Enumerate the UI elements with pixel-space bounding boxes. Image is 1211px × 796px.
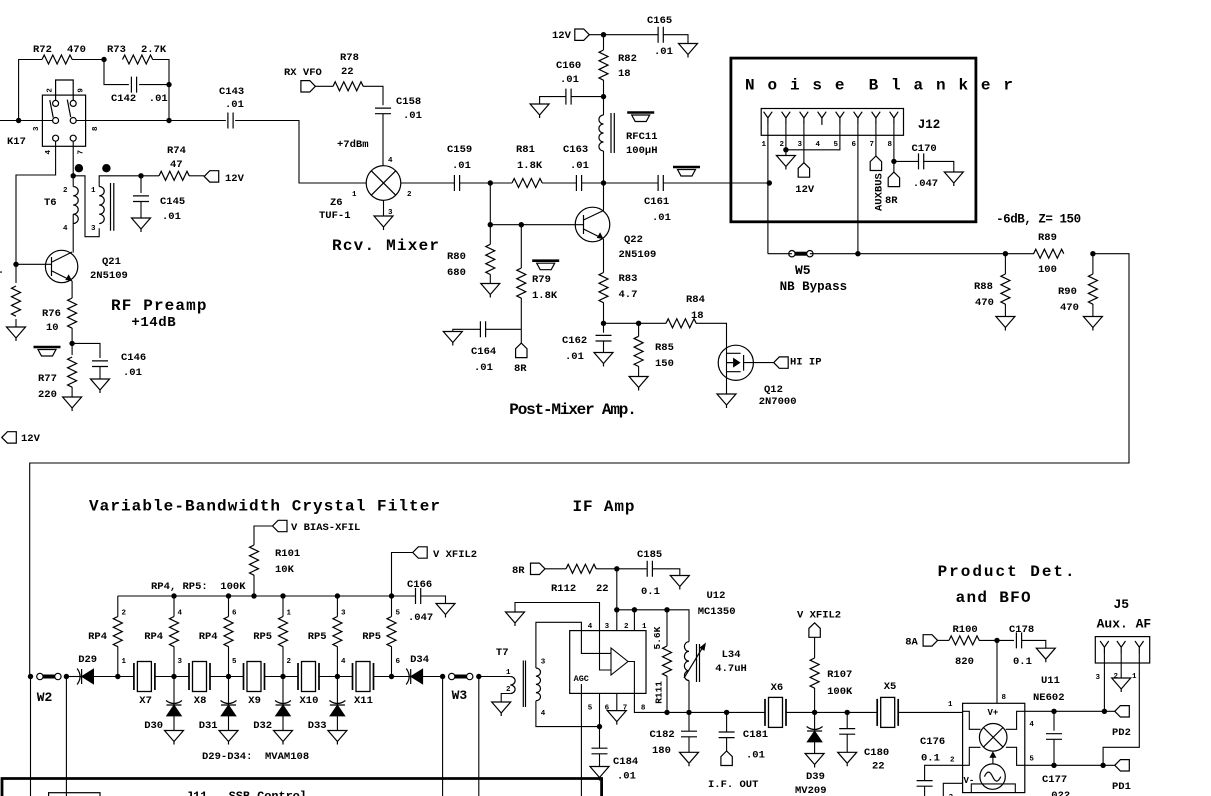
wire: T6 pin4 down to Q21 collector	[52, 214, 73, 262]
svg-text:1: 1	[287, 610, 292, 618]
wire: C142 right lead	[139, 84, 169, 86]
wire: drop from C159 junction to base line	[489, 183, 491, 225]
node: junction D33	[335, 674, 340, 679]
wire: C164 left lead to ground	[453, 329, 481, 331]
svg-text:C181: C181	[743, 729, 768, 741]
wire: C161 into noise blanker to J12 pin1	[663, 182, 769, 184]
wire: C170 to ground	[924, 161, 954, 172]
capacitor C178	[1016, 632, 1021, 648]
svg-text:3: 3	[91, 225, 96, 233]
wire: junction down to U11 pin8	[996, 640, 998, 703]
flag PD1	[1115, 760, 1130, 771]
svg-text:7: 7	[870, 141, 875, 149]
ground (Z6)	[374, 216, 393, 230]
ground (J5 pin2)	[1112, 678, 1131, 692]
wire: U11 pin5 output (PD1 line)	[1025, 764, 1115, 766]
J5 pin 3	[1100, 641, 1109, 654]
svg-text:2: 2	[780, 141, 785, 149]
wire: R101 to bus	[253, 575, 255, 596]
svg-text:2: 2	[624, 623, 629, 631]
wire: U11 pin4 output (PD2 line)	[1025, 710, 1115, 712]
crystal X10	[298, 662, 319, 692]
capacitor C145	[140, 176, 142, 193]
svg-text:I.F. OUT: I.F. OUT	[708, 779, 758, 791]
svg-text:4: 4	[588, 623, 593, 631]
capacitor C142	[131, 77, 136, 93]
crystal X9	[244, 662, 265, 692]
svg-text:C185: C185	[637, 549, 662, 561]
varactor diode D39	[814, 712, 816, 731]
svg-text:T: T	[0, 270, 2, 282]
node: junction R100/C178/pin8	[994, 638, 999, 643]
svg-text:5.6K: 5.6K	[652, 626, 663, 649]
node: junction W2 left	[28, 674, 33, 679]
svg-text:R73: R73	[107, 44, 126, 56]
svg-text:.01: .01	[654, 46, 673, 58]
svg-text:.047: .047	[408, 612, 433, 624]
jumper W2	[37, 673, 61, 679]
svg-text:8: 8	[888, 141, 893, 149]
wire: R112 to junction	[596, 568, 617, 570]
svg-text:.01: .01	[452, 160, 471, 172]
shield icon (above R79)	[532, 261, 559, 270]
crystal X5	[877, 697, 898, 727]
svg-text:8: 8	[92, 126, 100, 131]
resistor R76	[68, 298, 77, 328]
wire: X6 to R107 junction	[786, 711, 877, 713]
node: junction T6 pin2 top	[71, 173, 76, 178]
node: junction RFC11/Q22 collector/C161	[601, 180, 606, 185]
svg-text:Rcv. Mixer: Rcv. Mixer	[332, 237, 439, 255]
wire: C166 to ground	[421, 596, 446, 604]
ground (C180)	[838, 752, 857, 766]
capacitor C164	[480, 321, 485, 337]
svg-text:C184: C184	[613, 756, 638, 768]
wire: junction to C160	[571, 96, 603, 98]
capacitor C163	[576, 175, 581, 191]
svg-text:C165: C165	[647, 15, 672, 27]
node: junction C142/R73 vertical	[166, 82, 171, 87]
shield icon (near R77)	[34, 347, 61, 356]
resistor R82	[603, 35, 605, 50]
svg-text:C160: C160	[556, 60, 581, 72]
svg-text:3: 3	[541, 659, 546, 667]
capacitor C161	[658, 175, 663, 191]
J12 pin 7	[872, 112, 881, 125]
connector J11 (partial)	[49, 793, 100, 796]
wire: R82 to junction	[603, 80, 605, 97]
capacitor C166	[392, 595, 416, 597]
svg-text:D34: D34	[410, 654, 429, 666]
U11 osc-to-mixer arrow	[992, 755, 994, 764]
wire: J12 pin1 down through box to W5 line	[767, 125, 769, 254]
svg-text:100: 100	[1038, 264, 1057, 276]
svg-text:V+: V+	[988, 708, 999, 718]
inductor L34 (variable)	[684, 642, 702, 682]
wire: C160 to ground	[540, 97, 566, 104]
resistor R100	[949, 636, 979, 645]
svg-text:C159: C159	[447, 144, 472, 156]
wire: junction to R74	[141, 175, 159, 177]
U11 internal routing pin2	[963, 747, 981, 765]
wire: W2 verticals into SSB control box	[31, 677, 67, 796]
resistor R80	[489, 225, 491, 245]
J12 pin 3	[800, 112, 809, 125]
svg-text:.01: .01	[560, 74, 579, 86]
wire: junction to R85 junction	[604, 322, 639, 324]
svg-text:8R: 8R	[885, 195, 898, 207]
svg-text:V-: V-	[964, 776, 975, 786]
power flag 12V (bottom-left, floating)	[2, 432, 16, 443]
svg-text:RP4: RP4	[199, 631, 218, 643]
node: junction R111 top	[664, 607, 669, 612]
resistor RP4-c	[228, 596, 230, 617]
svg-text:D29-D34: MVAM108: D29-D34: MVAM108	[202, 751, 309, 763]
ground (C145)	[132, 218, 151, 232]
wire: relay pin4 path down-left	[16, 141, 56, 264]
ground (C160)	[530, 104, 549, 118]
svg-text:R88: R88	[974, 281, 993, 293]
svg-text:R78: R78	[340, 52, 359, 64]
wire: base line to Q22	[490, 224, 583, 226]
transformer T6	[73, 183, 114, 231]
svg-text:100µH: 100µH	[626, 145, 658, 157]
varactor diode D33	[336, 677, 338, 706]
svg-text:V XFIL2: V XFIL2	[433, 549, 477, 561]
svg-text:Z6: Z6	[330, 197, 343, 209]
svg-text:X7: X7	[139, 695, 152, 707]
svg-text:R81: R81	[516, 144, 535, 156]
wire: R73 right lead and vertical to bus	[153, 60, 170, 121]
svg-text:6: 6	[605, 705, 610, 713]
svg-text:100K: 100K	[827, 686, 853, 698]
svg-text:RP4, RP5: 100K: RP4, RP5: 100K	[151, 581, 246, 593]
ground (C170)	[944, 172, 963, 186]
J12 pin 4 (stub only)	[818, 112, 827, 125]
flag V BIAS-XFIL	[273, 520, 288, 531]
node: junction W2 right	[64, 674, 69, 679]
wire: D34 to W3	[423, 676, 443, 678]
svg-text:V BIAS-XFIL: V BIAS-XFIL	[291, 522, 360, 534]
wire: R88 to ground	[1004, 304, 1006, 317]
flag HI IP	[774, 357, 789, 368]
wire: W3 verticals into SSB control box	[443, 677, 479, 796]
transistor Q21 2N5109	[45, 250, 77, 282]
wire: flag to R101	[254, 526, 273, 545]
node: junction pin6/T7 return	[597, 724, 602, 729]
svg-text:L34: L34	[722, 649, 741, 661]
ground (R77)	[63, 397, 82, 411]
svg-text:and BFO: and BFO	[956, 589, 1031, 607]
svg-text:1.8K: 1.8K	[532, 290, 558, 302]
svg-text:.01: .01	[570, 160, 589, 172]
svg-text:4: 4	[178, 610, 183, 618]
varactor diode D31	[228, 677, 230, 706]
resistor R79	[520, 225, 522, 268]
wire: AGC line (U12 pin5) to page bottom	[580, 684, 582, 796]
capacitor C146	[92, 361, 108, 367]
svg-text:4: 4	[341, 658, 346, 666]
svg-text:2: 2	[506, 686, 511, 694]
svg-text:W3: W3	[452, 688, 468, 703]
svg-text:470: 470	[1060, 302, 1079, 314]
svg-text:.01: .01	[403, 110, 422, 122]
ground (R88)	[996, 317, 1015, 331]
svg-text:J12: J12	[918, 118, 941, 132]
resistor R111	[666, 610, 668, 646]
svg-text:150: 150	[655, 358, 674, 370]
ground (C166)	[436, 604, 455, 618]
node: junction vertical at bus	[166, 118, 171, 123]
node: junction R101 at bus	[251, 593, 256, 598]
svg-text:820: 820	[955, 656, 974, 668]
svg-text:12V: 12V	[21, 433, 41, 445]
wire: T6 pin2 junction over to secondary pin3	[73, 176, 99, 237]
svg-text:47: 47	[170, 159, 183, 171]
svg-text:C143: C143	[219, 86, 244, 98]
svg-text:D31: D31	[199, 720, 218, 732]
node: junction R107/D39	[812, 710, 817, 715]
node: junction C177 top	[1051, 709, 1056, 714]
wire: J12 pin8 down to junction	[893, 125, 895, 161]
wire: J5 pin1 down and to PD1 line	[1103, 654, 1139, 765]
svg-text:C178: C178	[1009, 624, 1034, 636]
capacitor C159	[454, 175, 459, 191]
svg-text:R100: R100	[953, 624, 978, 636]
svg-text:R90: R90	[1058, 286, 1077, 298]
svg-text:NE602: NE602	[1033, 692, 1065, 704]
wire: R77 to ground	[71, 387, 73, 397]
wire: X7 to X8	[155, 676, 189, 678]
svg-text:.01: .01	[746, 750, 765, 762]
node: junction W3 right	[476, 674, 481, 679]
svg-text:1: 1	[352, 191, 357, 199]
svg-text:.01: .01	[225, 99, 244, 111]
J5 pin 2	[1117, 641, 1126, 654]
wire: R85 to ground	[638, 366, 640, 376]
wire: flag to R78	[315, 85, 333, 87]
flag I.F. OUT	[721, 751, 732, 766]
resistor R77	[68, 357, 77, 387]
ground (J12 pin2)	[776, 156, 795, 170]
svg-text:7: 7	[77, 150, 85, 155]
wire: pin8 junction to C170	[894, 160, 919, 162]
crystal X6	[765, 697, 786, 727]
node: junction at R79	[519, 222, 524, 227]
node: junction pin2 line	[614, 607, 619, 612]
svg-text:RFC11: RFC11	[626, 131, 658, 143]
wire: RFC11 down to output line junction	[603, 151, 605, 183]
ground (R80)	[481, 284, 500, 298]
svg-text:R111: R111	[654, 681, 665, 704]
svg-text:R85: R85	[655, 342, 674, 354]
wire: junction to C161	[604, 182, 659, 184]
wire: R90 to ground	[1092, 304, 1094, 317]
svg-text:RP4: RP4	[88, 631, 107, 643]
capacitor C162	[603, 323, 605, 332]
wire: ground line to U12 pin3	[515, 603, 600, 631]
wire: R78 to C158	[363, 86, 383, 105]
svg-text:6: 6	[852, 141, 857, 149]
resistor RP5-b	[336, 596, 338, 617]
wire: pin8 junction down to 8R flag	[893, 161, 895, 172]
svg-text:X5: X5	[884, 681, 897, 693]
node: junction R85	[636, 321, 641, 326]
svg-text:5: 5	[232, 658, 237, 666]
ground (U12 pin3)	[506, 612, 525, 626]
svg-text:IF Amp: IF Amp	[573, 498, 635, 516]
wire: flag to junction	[589, 34, 658, 36]
IC U11 NE602	[963, 703, 1025, 792]
wire: R74 to 12V flag	[189, 175, 204, 177]
ground (T7 pin2)	[492, 702, 511, 716]
svg-text:4: 4	[45, 150, 53, 155]
svg-text:0.1: 0.1	[1013, 656, 1032, 668]
mixer Z6 TUF-1	[366, 166, 401, 201]
wire: long routing wire to crystal filter	[30, 254, 1129, 677]
svg-text:4.7: 4.7	[619, 289, 638, 301]
svg-text:3: 3	[341, 610, 346, 618]
ground (D30)	[165, 731, 184, 745]
svg-text:R72: R72	[33, 44, 52, 56]
svg-text:Product Det.: Product Det.	[938, 563, 1075, 581]
wire: relay pin7 down to T6	[72, 141, 74, 186]
transistor Q12 2N7000	[718, 345, 753, 380]
wire: Q22 emitter down	[603, 239, 605, 273]
U12 internal amp	[581, 631, 634, 694]
svg-text:4.7uH: 4.7uH	[715, 663, 747, 675]
wire: U12 pin8 output line	[634, 693, 765, 712]
varactor diode D34	[406, 669, 423, 685]
wire: pin2 junction to ground	[785, 150, 787, 156]
svg-text:X10: X10	[300, 695, 319, 707]
shield icon (near RFC11)	[627, 113, 654, 122]
svg-text:.047: .047	[913, 178, 938, 190]
svg-text:2N5109: 2N5109	[90, 270, 128, 282]
svg-text:18: 18	[618, 68, 631, 80]
U11 internal routing pin4	[1006, 711, 1025, 729]
svg-text:X6: X6	[771, 682, 784, 694]
svg-text:Variable-Bandwidth Crystal Fil: Variable-Bandwidth Crystal Filter	[89, 498, 440, 516]
wire: R107 to line	[814, 688, 816, 712]
wire: Q22 collector up to junction	[603, 183, 605, 211]
svg-text:0.1: 0.1	[921, 753, 940, 765]
node: junction C177 bottom	[1051, 763, 1056, 768]
wire: Q21 emitter down	[71, 281, 73, 298]
J12 pin 5	[836, 112, 845, 125]
node: junction emitter/C146	[69, 341, 74, 346]
capacitor C165	[658, 27, 663, 43]
wire: C142 left drop	[104, 60, 129, 85]
svg-text:R80: R80	[447, 251, 466, 263]
ground (D33)	[328, 731, 347, 745]
svg-text:2N7000: 2N7000	[759, 396, 797, 408]
resistor R83	[599, 273, 608, 303]
svg-text:9: 9	[77, 88, 85, 93]
svg-text:C163: C163	[563, 144, 588, 156]
svg-text:D30: D30	[144, 720, 163, 732]
svg-text:.01: .01	[474, 362, 493, 374]
svg-text:2: 2	[63, 187, 68, 195]
svg-text:R112: R112	[551, 583, 576, 595]
ground (C184)	[590, 767, 609, 781]
wire: R83 to junction	[603, 303, 605, 324]
svg-text:C164: C164	[471, 346, 496, 358]
node: junction R111 bottom	[664, 710, 669, 715]
flag PD2	[1115, 706, 1130, 717]
svg-text:180: 180	[652, 745, 671, 757]
svg-text:18: 18	[691, 310, 704, 322]
svg-text:C180: C180	[864, 747, 889, 759]
node: junction pin8/C170	[891, 159, 896, 164]
svg-text:RP5: RP5	[308, 631, 327, 643]
svg-text:470: 470	[67, 44, 86, 56]
wire: C158 down to mixer pin4	[382, 114, 384, 166]
resistor R75 (label cut off at page edge)	[15, 264, 17, 283]
varactor diode D32	[282, 677, 284, 706]
node: junction D31	[226, 674, 231, 679]
ground (C162)	[594, 353, 613, 367]
resistor R89	[1034, 249, 1064, 258]
flag AUXBUS	[870, 156, 881, 171]
svg-text:R77: R77	[38, 373, 57, 385]
varactor diode D30	[173, 677, 175, 706]
svg-text:2: 2	[1114, 673, 1119, 681]
ground (R75)	[7, 327, 26, 341]
wire: R72 right to junction	[72, 59, 104, 61]
wire: T7 secondary bottom to pin6 junction	[536, 701, 600, 727]
U11 internal routing pin5	[1006, 747, 1025, 765]
svg-text:.01: .01	[652, 212, 671, 224]
resistor R88	[1004, 254, 1006, 274]
ground (D39)	[805, 754, 824, 768]
J5 pin 1	[1135, 641, 1144, 654]
inductor RFC11	[603, 97, 605, 115]
svg-text:6: 6	[396, 658, 401, 666]
ground (C165)	[679, 44, 698, 58]
wire: X10 to X11	[319, 676, 353, 678]
wire: R76 to junction	[71, 328, 73, 355]
crystal X11	[353, 662, 374, 692]
node: junction C159/R81/R80	[488, 180, 493, 185]
wire: junction down to U12 pin2	[616, 569, 618, 631]
node: junction Q21 base	[13, 262, 18, 267]
svg-text:8: 8	[641, 705, 646, 713]
wire: T6 secondary pin1 to 12V rail	[99, 176, 141, 187]
svg-text:D29: D29	[78, 654, 97, 666]
svg-text:10K: 10K	[275, 564, 295, 576]
wire: R80 to ground	[489, 274, 491, 283]
svg-text:1: 1	[506, 669, 511, 677]
resistor R107	[810, 658, 819, 688]
svg-text:T6: T6	[44, 197, 57, 209]
svg-text:12V: 12V	[795, 184, 815, 196]
svg-text:R89: R89	[1038, 232, 1057, 244]
svg-text:8R: 8R	[512, 565, 525, 577]
svg-text:22: 22	[872, 761, 885, 773]
wire: main input from left edge to relay K17 pin 3	[0, 120, 42, 122]
svg-text:6: 6	[232, 610, 237, 618]
wire: bias bus	[118, 595, 392, 597]
jumper W5	[789, 251, 813, 257]
wire: C178 to ground	[1022, 640, 1046, 648]
resistor R72	[42, 55, 72, 64]
svg-text:2: 2	[287, 658, 292, 666]
wire: junction down to 8R flag	[520, 329, 522, 343]
varactor diode D29	[77, 669, 94, 685]
U11 internal oscillator	[980, 764, 1005, 789]
svg-text:AUXBUS: AUXBUS	[874, 173, 886, 211]
